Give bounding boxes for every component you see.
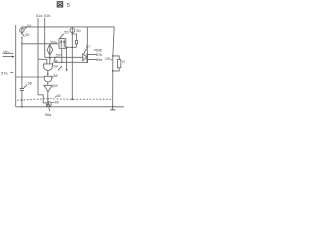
svg-text:5: 5 bbox=[67, 3, 70, 9]
wire: control line B vertical bbox=[44, 18, 46, 57]
wire: feedback line y77 bbox=[16, 76, 44, 78]
svg-text:57b: 57b bbox=[96, 53, 102, 57]
dependent source D1 diamond bbox=[47, 44, 53, 55]
svg-text:51: 51 bbox=[27, 23, 31, 28]
wire: U1 output bbox=[47, 71, 49, 77]
capacitor C1 bbox=[20, 89, 24, 91]
label arrow 59 bbox=[58, 67, 61, 71]
wire: Q1 branch right bbox=[72, 34, 76, 40]
svg-text:50: 50 bbox=[76, 28, 81, 33]
svg-text:59a: 59a bbox=[96, 58, 103, 62]
current source I1 bbox=[20, 28, 24, 32]
svg-text:57: 57 bbox=[86, 44, 90, 49]
label 50b row bbox=[94, 49, 96, 51]
node G junction bbox=[21, 106, 23, 108]
svg-text:VB: VB bbox=[105, 57, 111, 61]
resistor R1 loop bbox=[113, 56, 119, 60]
label 57 bbox=[84, 49, 87, 54]
svg-text:60: 60 bbox=[55, 101, 59, 105]
wire: output line y62 bbox=[55, 57, 87, 62]
node C junction bbox=[49, 57, 50, 58]
svg-text:R: R bbox=[122, 60, 125, 64]
svg-text:58a: 58a bbox=[45, 113, 52, 117]
label 51 bbox=[24, 27, 27, 29]
svg-text:59: 59 bbox=[53, 84, 57, 88]
svg-text:55: 55 bbox=[64, 30, 68, 35]
svg-text:52: 52 bbox=[25, 32, 29, 37]
wire: node line y57 bbox=[45, 56, 84, 58]
wire: control line A vertical bbox=[37, 18, 39, 59]
wire: control line A to gate U1 left input bbox=[38, 59, 47, 64]
svg-text:56: 56 bbox=[28, 80, 32, 85]
node D junction bbox=[54, 57, 55, 58]
wire: right rail upper segment bbox=[113, 27, 115, 107]
node E junction bbox=[61, 62, 62, 63]
svg-text:58: 58 bbox=[53, 74, 57, 78]
label 59b bbox=[52, 86, 55, 89]
svg-text:51b: 51b bbox=[44, 13, 51, 18]
switch SW1 bbox=[21, 33, 22, 34]
diode pin ticks bbox=[88, 55, 97, 60]
wire: node A down to capacitor C1 bbox=[21, 44, 23, 88]
wire: control line A to transistor Q2 base bbox=[38, 95, 46, 103]
node H junction bbox=[112, 106, 114, 108]
wire: Q1 trunk down to dashed line bbox=[71, 34, 73, 99]
svg-text:59a: 59a bbox=[50, 40, 57, 44]
svg-text:50b: 50b bbox=[96, 48, 102, 52]
wire: control line A trunk down bbox=[37, 59, 39, 95]
gate U2 bbox=[44, 76, 52, 82]
svg-text:51a: 51a bbox=[36, 13, 43, 18]
svg-text:57a: 57a bbox=[1, 70, 8, 75]
wire: VDD top rail bbox=[21, 26, 114, 28]
label 58a bbox=[48, 108, 51, 112]
svg-text:54: 54 bbox=[53, 59, 57, 63]
wire: box bottom stub bbox=[61, 48, 63, 62]
dashed control line bbox=[17, 99, 113, 101]
svg-text:53: 53 bbox=[56, 53, 60, 57]
element E1 in branch bbox=[75, 41, 77, 44]
transistor Q1 (current mirror) bbox=[70, 28, 75, 33]
wire: U3 output bbox=[47, 92, 49, 99]
node B junction with arrow stub bbox=[66, 47, 68, 49]
wire: input vertical line bbox=[15, 25, 17, 107]
figure title 図5 box glyph bbox=[57, 2, 63, 7]
label 58b bbox=[52, 77, 53, 78]
diode D2 bbox=[86, 27, 88, 62]
svg-text:60: 60 bbox=[57, 94, 61, 98]
inverter U3 bbox=[44, 85, 53, 91]
wire: gate U1 right input bbox=[49, 44, 51, 64]
label 60a leader bbox=[55, 96, 56, 97]
node A junction bbox=[21, 43, 23, 45]
wire: node A horizontal y44 bbox=[22, 43, 59, 45]
wire: ground rail bbox=[16, 106, 124, 108]
node F junction bbox=[87, 61, 89, 63]
label 60 leader bbox=[52, 101, 55, 103]
component box 55 bbox=[59, 39, 66, 49]
ground bbox=[112, 107, 114, 110]
label 55 bbox=[60, 34, 64, 38]
transistor Q2 bbox=[46, 102, 51, 107]
label 54 bbox=[52, 63, 53, 64]
wire: U2 output bbox=[47, 82, 49, 85]
gate U1 bbox=[44, 64, 53, 71]
wire: y47 link bbox=[67, 46, 77, 48]
label 56 bbox=[24, 85, 27, 88]
svg-text:59: 59 bbox=[54, 65, 58, 69]
